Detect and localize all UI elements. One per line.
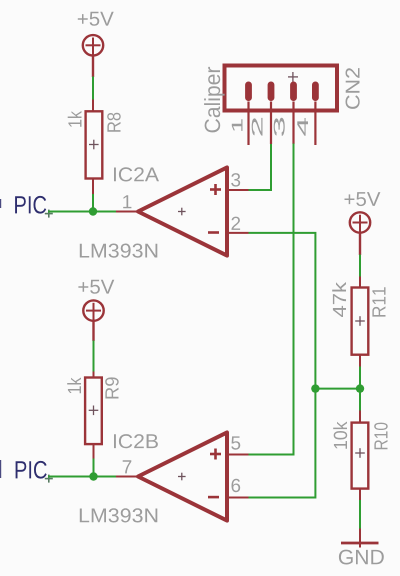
value 10k (R10)	[333, 422, 347, 449]
label +5V (P1)	[78, 12, 114, 26]
name R10	[374, 423, 388, 450]
label +5V (P3)	[345, 192, 381, 206]
wire CN2 pin3 to IC2B pin5	[249, 144, 294, 455]
wire R11 to node	[359, 367, 361, 389]
pin label 4	[297, 118, 308, 136]
op-amp IC2A	[116, 167, 249, 255]
CN2 pin 2 pad	[268, 82, 275, 102]
CN2 pin 4 pad	[312, 82, 319, 102]
resistor R11	[352, 277, 369, 368]
edge sliver	[0, 460, 1, 478]
value LM393N (IC2A)	[80, 244, 158, 258]
wire node to R10	[359, 389, 361, 411]
junction node R8/PIC	[89, 207, 97, 215]
wire PIC to IC2A pin1	[48, 211, 117, 213]
name CN2	[346, 68, 360, 109]
junction left	[311, 384, 319, 392]
pin 3 label	[231, 173, 240, 187]
resistor R10	[352, 411, 369, 501]
pin label 1	[232, 119, 243, 131]
edge sliver	[0, 199, 1, 208]
name R8	[107, 113, 121, 132]
supply +5V P3	[350, 212, 370, 255]
value 1k (R8)	[68, 111, 82, 127]
supply +5V P1	[83, 35, 103, 77]
ground GND	[341, 529, 379, 548]
label origin cross	[45, 210, 53, 218]
label GND	[339, 550, 384, 565]
wire node bridge	[315, 388, 360, 390]
wire P2 to R9	[93, 341, 95, 373]
CN2 pin 4 stub	[314, 102, 316, 146]
CN2 pin 2 stub	[270, 102, 272, 145]
connector CN2	[225, 66, 338, 111]
label +5V (P2)	[78, 280, 114, 294]
net label PIC (upper)	[15, 196, 46, 214]
wire P1 to R8	[92, 77, 94, 100]
value LM393N (IC2B)	[80, 508, 158, 522]
CN2 pin 3 stub	[292, 102, 294, 145]
value 47k (R11)	[332, 282, 346, 317]
resistor R9	[85, 372, 102, 459]
junction right	[356, 384, 364, 392]
CN2 pin 3 pad	[290, 82, 297, 102]
CN2 pin 1 stub	[247, 102, 249, 146]
name R9	[105, 377, 119, 398]
wire PIC to IC2B pin7	[48, 476, 117, 478]
name IC2A	[114, 167, 159, 181]
pin 6 label	[232, 479, 241, 493]
wire P3 to R11	[359, 255, 361, 278]
wire IC2A pin2 to node and IC2B pin6	[249, 233, 316, 498]
wire R10 to GND	[359, 500, 361, 529]
wire IC2A pin3 to CN2 pin2	[249, 144, 272, 191]
pin 1 label	[123, 195, 131, 208]
name IC2B	[114, 434, 158, 448]
pin 7 label	[123, 460, 132, 473]
pin 5 label	[231, 436, 240, 449]
resistor R8	[86, 100, 103, 197]
name R11	[372, 287, 385, 316]
value 1k (R9)	[67, 378, 81, 394]
junction node R9/PIC	[89, 472, 97, 480]
op-amp IC2B	[116, 432, 249, 520]
wire R8 to node	[92, 194, 94, 212]
CN2 pin 1 pad	[245, 82, 252, 102]
wire R9 to node	[93, 459, 95, 477]
pin 2 label	[232, 217, 241, 230]
supply +5V P2	[83, 300, 103, 341]
pin label 3	[274, 118, 285, 136]
label origin cross	[45, 475, 53, 483]
net label PIC (lower)	[16, 461, 47, 479]
name Caliper	[204, 67, 225, 132]
pin label 2	[252, 118, 263, 136]
